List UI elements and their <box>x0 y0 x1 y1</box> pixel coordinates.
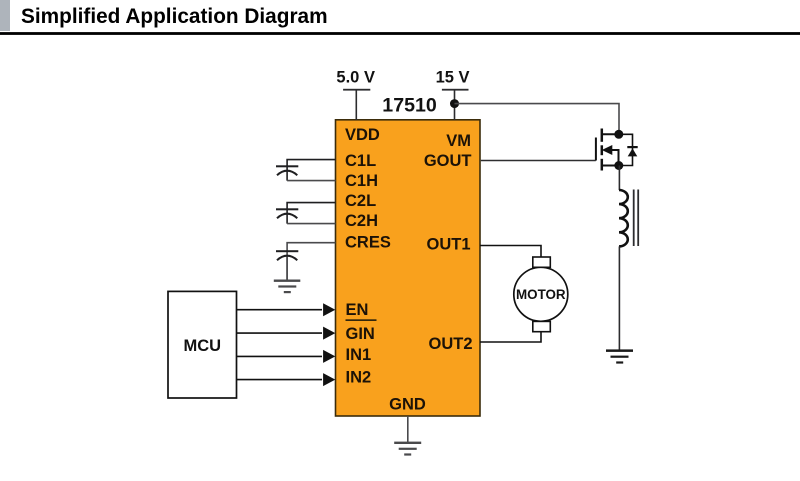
svg-text:GOUT: GOUT <box>424 152 472 170</box>
node Q1 source junction dot <box>614 161 623 170</box>
transistor Q1 body arrow <box>602 145 613 155</box>
body diode D1 loop wiring <box>619 134 633 165</box>
motor M1 bottom terminal <box>533 321 551 331</box>
motor M1 label <box>516 287 566 302</box>
wire GND pin to ground <box>407 416 409 443</box>
svg-text:5.0 V: 5.0 V <box>336 69 375 87</box>
pin label C2H <box>345 212 378 230</box>
pin label IN1 <box>346 346 372 364</box>
capacitor C1 curved plate <box>277 171 297 176</box>
node VM supply junction dot <box>450 99 459 108</box>
supply 15 V label <box>436 69 470 87</box>
svg-text:VM: VM <box>446 132 471 150</box>
wire inductor to ground <box>619 246 621 350</box>
svg-text:Simplified Application Diagram: Simplified Application Diagram <box>21 5 328 28</box>
inductor L1 core bars <box>633 190 639 247</box>
wire 15 V down to VM node <box>454 89 456 120</box>
pin label OUT2 <box>428 335 472 353</box>
inductor L1 coil <box>619 190 628 246</box>
pin label OUT1 <box>426 236 470 254</box>
svg-text:MOTOR: MOTOR <box>516 287 566 302</box>
capacitor C3 flat plate <box>276 250 298 252</box>
wire motor bottom to OUT2 <box>480 332 541 342</box>
body diode D1 anode triangle <box>628 148 638 156</box>
pin label GIN <box>346 325 375 343</box>
svg-text:GIN: GIN <box>346 325 375 343</box>
wire MCU to IN1 with arrowhead <box>237 350 336 363</box>
supply 15 V terminal bar <box>442 89 469 91</box>
IC U1 17510 body <box>336 120 481 416</box>
motor M1 body circle <box>514 267 568 321</box>
pin label VDD <box>345 126 380 144</box>
capacitor C1 top wire (C1L) <box>287 160 335 181</box>
header gray tab <box>0 0 10 31</box>
wire MCU to GIN with arrowhead <box>237 327 336 340</box>
header title text <box>21 5 328 28</box>
capacitor C2 bottom wire (C2H) <box>287 223 335 225</box>
header rule line <box>0 32 800 35</box>
svg-text:C1L: C1L <box>345 152 376 170</box>
svg-text:C2H: C2H <box>345 212 378 230</box>
body diode D1 cathode bar <box>627 146 637 148</box>
ground (IC GND) <box>394 442 421 456</box>
ground (right, below inductor) <box>606 349 633 363</box>
svg-text:17510: 17510 <box>382 95 437 117</box>
capacitor C3 wire from CRES pin <box>287 243 335 281</box>
svg-text:IN2: IN2 <box>346 369 372 387</box>
capacitor C2 top wire (C2L) <box>287 203 335 224</box>
motor M1 top terminal <box>533 257 551 267</box>
wire 5.0 V to VDD pin <box>356 89 358 120</box>
svg-text:MCU: MCU <box>184 337 222 355</box>
ground (CRES capacitor) <box>274 280 301 294</box>
part number label 17510 <box>382 95 437 117</box>
svg-text:C2L: C2L <box>345 192 376 210</box>
capacitor C2 curved plate <box>277 214 297 219</box>
pin label IN2 <box>346 369 372 387</box>
capacitor C1 bottom wire (C1H) <box>287 180 335 182</box>
transistor Q1 N-channel MOSFET <box>596 129 619 171</box>
wire OUT1 to motor top <box>480 246 541 258</box>
capacitor C3 curved plate <box>277 256 297 261</box>
capacitor C2 flat plate <box>276 208 298 210</box>
wire Q1 source to inductor <box>619 166 621 191</box>
node Q1 drain junction dot <box>614 130 623 139</box>
capacitor C1 flat plate <box>276 165 298 167</box>
pin label GND <box>389 395 426 413</box>
wire VM node to MOSFET drain (top rail) <box>455 104 620 134</box>
supply 5.0 V label <box>336 69 375 87</box>
supply 5.0 V terminal bar <box>343 89 370 91</box>
MCU box <box>168 291 237 398</box>
pin label VM <box>446 132 471 150</box>
svg-text:VDD: VDD <box>345 126 380 144</box>
svg-text:C1H: C1H <box>345 172 378 190</box>
pin label GOUT <box>424 152 472 170</box>
pin label C1H <box>345 172 378 190</box>
svg-text:OUT1: OUT1 <box>426 236 470 254</box>
svg-text:15 V: 15 V <box>436 69 470 87</box>
MCU label <box>184 337 222 355</box>
svg-text:CRES: CRES <box>345 234 391 252</box>
svg-text:EN: EN <box>346 301 369 319</box>
wire MCU to IN2 with arrowhead <box>237 373 336 386</box>
pin label CRES <box>345 234 391 252</box>
svg-text:OUT2: OUT2 <box>428 335 472 353</box>
svg-text:IN1: IN1 <box>346 346 372 364</box>
pin label EN with active-low underline <box>346 301 377 321</box>
pin label C2L <box>345 192 376 210</box>
wire MCU to EN with arrowhead <box>237 303 336 316</box>
capacitor C3 wire to ground <box>286 257 288 280</box>
svg-text:GND: GND <box>389 395 426 413</box>
pin label C1L <box>345 152 376 170</box>
wire GOUT to gate <box>481 160 596 162</box>
